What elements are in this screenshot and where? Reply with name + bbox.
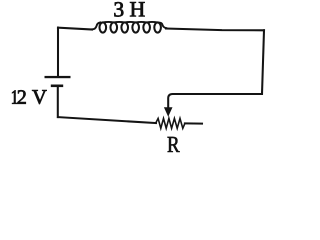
wire top-left segment [58, 28, 92, 30]
inductor top bridge strokes [103, 21, 158, 24]
battery B1 short plate [51, 85, 63, 88]
wire left vertical (bottom, battery negative lead) [57, 87, 59, 118]
wire top-right segment [166, 29, 264, 31]
wire bottom segment [58, 117, 156, 123]
label H unit [130, 2, 145, 16]
inductor entry hook [92, 23, 100, 30]
label 12 V battery voltage [12, 90, 46, 104]
inductor loop turns [100, 22, 107, 32]
wire left vertical (top, battery positive lead) [57, 28, 59, 76]
wire jog to wiper arrow [168, 94, 262, 109]
wiper arrowhead [164, 107, 173, 117]
label 3 H value of inductor [114, 2, 123, 16]
battery B1 long plate [45, 76, 71, 78]
wire resistor right stub [185, 122, 202, 124]
wire right vertical [262, 30, 264, 94]
inductor L1 coil loops (3 H) [92, 22, 166, 33]
resistor R zigzag [156, 118, 185, 128]
inductor exit hook [158, 23, 166, 29]
label R resistor name [168, 137, 180, 152]
